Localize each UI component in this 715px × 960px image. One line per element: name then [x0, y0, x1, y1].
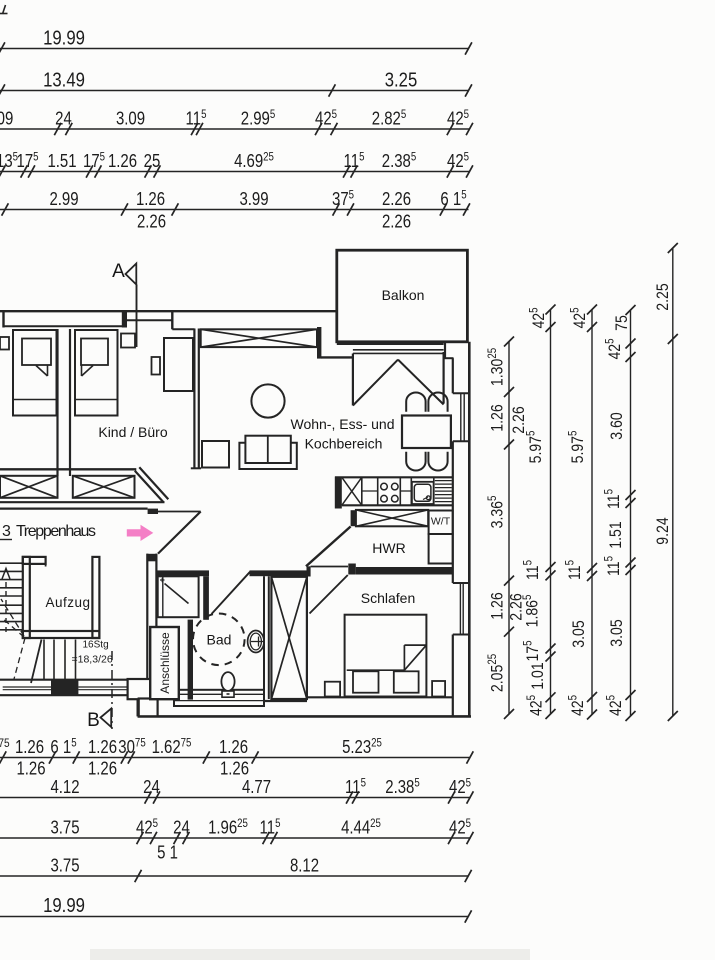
- section marker B arrowhead: [101, 709, 112, 728]
- svg-text:25: 25: [144, 151, 161, 172]
- svg-text:425: 425: [604, 338, 625, 359]
- floor plan: [0, 250, 471, 731]
- Schlafen window sill bottom: [453, 634, 470, 636]
- shower tray: [158, 576, 199, 617]
- svg-text:425: 425: [605, 695, 626, 716]
- svg-text:Schlafen: Schlafen: [361, 590, 415, 606]
- dim row B1 line 75/1.26/615/1.26/3075/1.6275/1.26/5.2325 with 1.26 below: [0, 757, 470, 759]
- window top-left W1: [2, 312, 4, 328]
- section marker A arrowhead: [126, 264, 137, 285]
- Schlafen window sill top: [453, 582, 470, 584]
- right wall inner line middle: [452, 441, 454, 583]
- right wall inner line upper: [444, 343, 446, 359]
- svg-text:3.60: 3.60: [608, 412, 626, 440]
- double bed Schlafen: [345, 615, 427, 697]
- staircase wall pier dark: [51, 680, 78, 696]
- svg-text:1.9625: 1.9625: [208, 817, 248, 838]
- bottom exterior wall outer line: [138, 715, 471, 718]
- svg-text:1.865: 1.865: [521, 595, 542, 628]
- dim chain V2: 425/5.975/115/175/1.01/425: [550, 310, 552, 715]
- svg-text:75: 75: [613, 315, 631, 331]
- diagonal wall hall to HWR: [306, 527, 351, 567]
- svg-text:3.09: 3.09: [116, 108, 145, 129]
- kitchen shaft X-box: [356, 510, 428, 526]
- svg-text:09: 09: [0, 108, 13, 129]
- right wall inner line lower: [452, 635, 454, 717]
- balcony door left jamb: [352, 354, 354, 406]
- hob with 4 burners: [381, 483, 388, 490]
- svg-text:Bad: Bad: [207, 632, 232, 648]
- bed cushion left: [353, 671, 379, 692]
- svg-text:24: 24: [55, 108, 72, 129]
- svg-text:HWR: HWR: [372, 540, 405, 556]
- stair treads upper flight: [0, 562, 23, 564]
- svg-text:Anschlüsse: Anschlüsse: [158, 632, 172, 694]
- diagonal wall bedroom corner to corridor: [135, 471, 164, 503]
- svg-text:3.75: 3.75: [50, 855, 79, 876]
- svg-text:425: 425: [315, 108, 337, 129]
- kitchen counter left wall bar: [335, 477, 342, 509]
- dim chain V4: 75/425/3.60/115/1.51/115/3.05/425: [630, 310, 632, 716]
- svg-text:115: 115: [603, 556, 624, 576]
- svg-text:2.385: 2.385: [385, 777, 420, 798]
- dim row T5 line 2.99/1.26/3.99/375/2.26/615 with 2.26 below: [0, 209, 469, 211]
- Bad west wall below shower: [188, 620, 193, 700]
- bed 2 blanket line: [75, 399, 118, 401]
- Bad room dashed circle: [193, 614, 245, 666]
- entrance notch block: [148, 509, 158, 514]
- svg-text:24: 24: [143, 777, 160, 798]
- bottom wall left closure: [137, 698, 139, 717]
- svg-text:425: 425: [528, 307, 549, 328]
- svg-text:5.975: 5.975: [525, 431, 546, 464]
- svg-text:1.26: 1.26: [16, 758, 45, 779]
- Schlafen top wall band: [356, 567, 453, 575]
- balcony door leaf right: [398, 360, 444, 405]
- svg-text:425: 425: [447, 151, 469, 172]
- dimension chains: right side (vertical): [486, 243, 678, 721]
- desk chair: [152, 357, 161, 375]
- svg-text:B: B: [87, 710, 100, 731]
- svg-text:375: 375: [332, 189, 354, 210]
- round table: [251, 384, 284, 417]
- Schlafen corner post: [307, 566, 311, 576]
- wall Kind/Buero to living room: [193, 329, 195, 468]
- svg-text:Balkon: Balkon: [382, 287, 425, 303]
- wall vent/basin circle: [248, 631, 264, 653]
- bottom wall top edge under Bad: [264, 700, 307, 702]
- svg-text:24: 24: [173, 817, 190, 838]
- entrance side wall: [146, 554, 148, 680]
- dim row T4 line 135/175/1.51/175/1.26/25/4.6925/115/2.385/425: [0, 171, 470, 173]
- nightstand bed2: [121, 334, 135, 348]
- living room window parapet X-band: [201, 329, 317, 347]
- dim row B5 line 19.99: [0, 916, 469, 918]
- svg-text:Wohn-, Ess- und: Wohn-, Ess- und: [290, 416, 394, 432]
- svg-text:19.99: 19.99: [43, 894, 85, 917]
- kitchen counter outline: [335, 476, 453, 478]
- dim row T1 line 19.99: [0, 48, 469, 50]
- scan smudge bottom edge: [90, 949, 530, 960]
- svg-text:425: 425: [449, 777, 471, 798]
- bed 2 pillow: [81, 339, 108, 366]
- Balkon outline: [337, 250, 468, 342]
- shelf left of sofa: [202, 441, 229, 468]
- svg-text:75: 75: [0, 737, 10, 750]
- stair walk line with up arrow: [5, 578, 7, 632]
- svg-text:1.51: 1.51: [47, 151, 76, 172]
- drainer hatch: [435, 480, 452, 482]
- Bad top wall band: [156, 570, 209, 576]
- svg-text:4.6925: 4.6925: [234, 151, 274, 172]
- svg-text:2.995: 2.995: [241, 108, 276, 129]
- balcony door right jamb: [443, 352, 445, 404]
- Bad east wall double line: [263, 576, 265, 699]
- Anschluesse shaft box: [150, 627, 179, 699]
- staircase window glazing left: [3, 686, 51, 688]
- svg-text:2.26: 2.26: [382, 211, 411, 232]
- svg-text:115: 115: [603, 489, 624, 509]
- staircase window glazing right: [78, 686, 127, 688]
- entrance wall end cap: [147, 554, 157, 562]
- svg-text:2.825: 2.825: [372, 108, 407, 129]
- corridor wall lower line: [0, 508, 148, 510]
- bed 1: [13, 330, 57, 416]
- svg-text:1.26: 1.26: [136, 189, 165, 210]
- svg-text:2.25: 2.25: [654, 283, 672, 311]
- svg-text:6 15: 6 15: [50, 737, 76, 758]
- nightstand bedroom1 (clipped): [0, 337, 9, 350]
- bed cushion right: [394, 671, 419, 692]
- dim row B3 line 3.75/425/24/1.9625/115/4.4425/425 with 51 below: [0, 837, 471, 839]
- svg-text:115: 115: [564, 560, 585, 580]
- svg-text:Kochbereich: Kochbereich: [305, 436, 383, 452]
- Bad wall right of shower: [203, 576, 209, 620]
- svg-text:1.26: 1.26: [88, 737, 117, 758]
- entrance arrow (pink): [127, 525, 154, 541]
- sofa seat cushions: [245, 436, 290, 463]
- svg-text:5.975: 5.975: [567, 431, 588, 464]
- svg-text:19.99: 19.99: [43, 26, 85, 49]
- svg-text:115: 115: [522, 560, 543, 580]
- Aufzug wall left: [23, 557, 30, 638]
- nightstand left: [325, 682, 340, 697]
- Aufzug wall bottom: [23, 631, 100, 638]
- svg-text:135: 135: [0, 151, 18, 172]
- dining window sill top: [453, 392, 470, 394]
- bedroom closet X-box 1: [0, 476, 58, 498]
- svg-text:115: 115: [345, 777, 366, 798]
- bed 1 blanket line: [13, 399, 57, 401]
- dim chain V5: 2.25/9.24: [672, 248, 674, 716]
- svg-text:2.26: 2.26: [137, 211, 166, 232]
- svg-text:2.26: 2.26: [510, 406, 528, 433]
- kitchen counter divider lines: [377, 477, 379, 505]
- svg-text:W/T: W/T: [431, 516, 451, 528]
- W/T closet lower: [429, 534, 453, 564]
- bed 2 fold: [81, 365, 83, 376]
- bottom wall top edge under Schlafen: [307, 696, 453, 698]
- corner block stair/apartment: [128, 679, 151, 699]
- svg-text:Kind / Büro: Kind / Büro: [98, 424, 167, 440]
- svg-text:16Stg: 16Stg: [83, 640, 109, 651]
- Bad door leaf: [212, 572, 251, 614]
- wall band above wardrobe: [250, 570, 308, 576]
- entrance lintel line: [158, 511, 201, 513]
- balcony door leaf left: [353, 360, 398, 406]
- svg-text:175: 175: [522, 640, 543, 661]
- desk Kind/Buero: [164, 338, 193, 391]
- bedroom bottom wall line: [0, 468, 136, 470]
- bed 2: [75, 330, 118, 416]
- window W2 left jamb: [171, 312, 173, 329]
- bottom wall top edge under hall: [138, 696, 175, 698]
- svg-text:2.26: 2.26: [382, 189, 411, 210]
- svg-text:4.77: 4.77: [242, 777, 271, 798]
- kitchen fridge X-cell: [361, 477, 363, 505]
- right exterior wall outer line: [468, 342, 471, 717]
- top exterior wall line: [0, 310, 337, 312]
- svg-text:5.2325: 5.2325: [342, 737, 382, 758]
- sink unit: [412, 482, 434, 504]
- Schlafen wardrobe X-box: [271, 577, 307, 699]
- svg-text:3075: 3075: [118, 737, 145, 758]
- stair treads lower flight: [43, 640, 45, 680]
- nightstand right: [432, 681, 445, 697]
- Schlafen door jamb notch: [348, 564, 356, 575]
- svg-text:A: A: [112, 261, 125, 282]
- svg-text:115: 115: [186, 108, 207, 129]
- svg-text:425: 425: [567, 695, 588, 716]
- entrance diagonal wall: [158, 512, 201, 554]
- W/T closet upper: [429, 511, 453, 535]
- Schlafen window glazing: [459, 583, 461, 635]
- dim chain V3: 425/5.975/115/3.05/425: [591, 310, 593, 715]
- svg-text:1.51: 1.51: [607, 521, 625, 548]
- svg-text:1.26: 1.26: [488, 592, 506, 619]
- kitchen shaft stub bar: [351, 510, 356, 526]
- svg-text:3.05: 3.05: [608, 619, 626, 647]
- section line B (dash-dot): [111, 651, 113, 729]
- dim row T2 line 13.49 / 3.25: [0, 90, 469, 92]
- WC toilet: [221, 672, 234, 691]
- svg-text:6 15: 6 15: [440, 189, 466, 210]
- svg-text:3.75: 3.75: [50, 817, 79, 838]
- svg-text:3.25: 3.25: [385, 68, 418, 91]
- Balkon bottom double line: [337, 343, 444, 345]
- svg-text:8.12: 8.12: [290, 855, 319, 876]
- dimension chains: top: [0, 26, 473, 232]
- svg-text:Aufzug: Aufzug: [45, 595, 90, 610]
- clipped corner mark top-left: [0, 13, 8, 15]
- corridor wall upper line: [0, 501, 165, 503]
- svg-text:1.26: 1.26: [15, 737, 44, 758]
- Schlafen door threshold line: [311, 566, 348, 568]
- dining chair bottom-right: [428, 452, 447, 471]
- bed blanket line: [347, 669, 405, 671]
- dining chair top-left: [406, 393, 425, 412]
- section line A: [136, 285, 138, 348]
- svg-text:425: 425: [525, 695, 546, 716]
- svg-text:4.12: 4.12: [50, 777, 79, 798]
- dining chair bottom-left: [406, 452, 425, 471]
- svg-text:1.26: 1.26: [108, 151, 137, 172]
- svg-text:1.3025: 1.3025: [486, 348, 507, 386]
- Aufzug wall right: [92, 557, 99, 638]
- svg-text:1.01: 1.01: [529, 662, 547, 689]
- stair run diagonal: [31, 640, 42, 684]
- svg-text:425: 425: [449, 817, 471, 838]
- svg-text:1.26: 1.26: [219, 737, 248, 758]
- dining table: [402, 416, 451, 449]
- corner step block: [139, 699, 158, 717]
- svg-text:1.26: 1.26: [488, 404, 506, 431]
- staircase exterior wall band: [0, 679, 128, 681]
- WC pre-wall installation box: [174, 690, 264, 706]
- dimension chains: bottom: [0, 737, 473, 923]
- Schlafen door leaf: [310, 575, 348, 614]
- svg-text:425: 425: [447, 108, 469, 129]
- dim row B2 line 4.12/24/4.77/115/2.385/425: [0, 797, 471, 799]
- svg-text:=18,3/26: =18,3/26: [72, 654, 113, 666]
- bed 1 pillow: [22, 339, 51, 366]
- svg-text:2.99: 2.99: [49, 189, 78, 210]
- svg-text:1.26: 1.26: [88, 758, 117, 779]
- svg-text:9.24: 9.24: [654, 517, 672, 545]
- balcony door threshold: [353, 349, 444, 351]
- svg-text:5 1: 5 1: [157, 842, 178, 863]
- winder dashed rays: [1, 599, 24, 636]
- dining window glazing: [460, 393, 462, 441]
- svg-text:175: 175: [83, 151, 105, 172]
- wall between bedroom1 and Kind/Buero: [56, 329, 58, 476]
- dim chain V1: 1.3025/1.26/3.365/1.26/2.0525: [508, 342, 510, 715]
- svg-text:425: 425: [569, 307, 590, 328]
- bed 1 fold: [47, 365, 49, 376]
- svg-text:115: 115: [260, 817, 281, 838]
- wall pier between W1 and W2: [123, 311, 127, 328]
- svg-text:115: 115: [344, 151, 365, 172]
- svg-text:3.99: 3.99: [239, 189, 268, 210]
- svg-text:3.365: 3.365: [486, 496, 507, 529]
- bed fold corner: [403, 645, 405, 670]
- dim row B4 line 3.75/8.12: [0, 875, 469, 877]
- svg-text:3: 3: [2, 523, 11, 540]
- svg-text:2.385: 2.385: [382, 151, 417, 172]
- window W2 sill (Kind/Buero): [172, 328, 194, 330]
- dining chair top-right: [428, 392, 447, 411]
- svg-text:1.6275: 1.6275: [152, 737, 192, 758]
- wall pier at living room window end: [317, 327, 321, 359]
- dining window sill bottom: [453, 440, 470, 442]
- svg-text:13.49: 13.49: [43, 68, 85, 91]
- svg-text:Treppenhaus: Treppenhaus: [16, 523, 96, 540]
- dim row T3 line 09/24/3.09/115/2.995/425/2.825/425: [0, 128, 470, 130]
- wall segment to balcony door: [321, 356, 353, 358]
- kitchen counter mid lines: [362, 490, 378, 492]
- bedroom closet X-box 2: [73, 476, 135, 498]
- Aufzug wall top stub: [23, 557, 46, 564]
- svg-text:2.0525: 2.0525: [486, 654, 507, 692]
- sofa frame: [239, 443, 296, 469]
- svg-text:175: 175: [16, 151, 38, 172]
- svg-text:4.4425: 4.4425: [341, 817, 381, 838]
- svg-text:3.05: 3.05: [570, 620, 588, 648]
- lintel over bedroom divider: [127, 319, 173, 321]
